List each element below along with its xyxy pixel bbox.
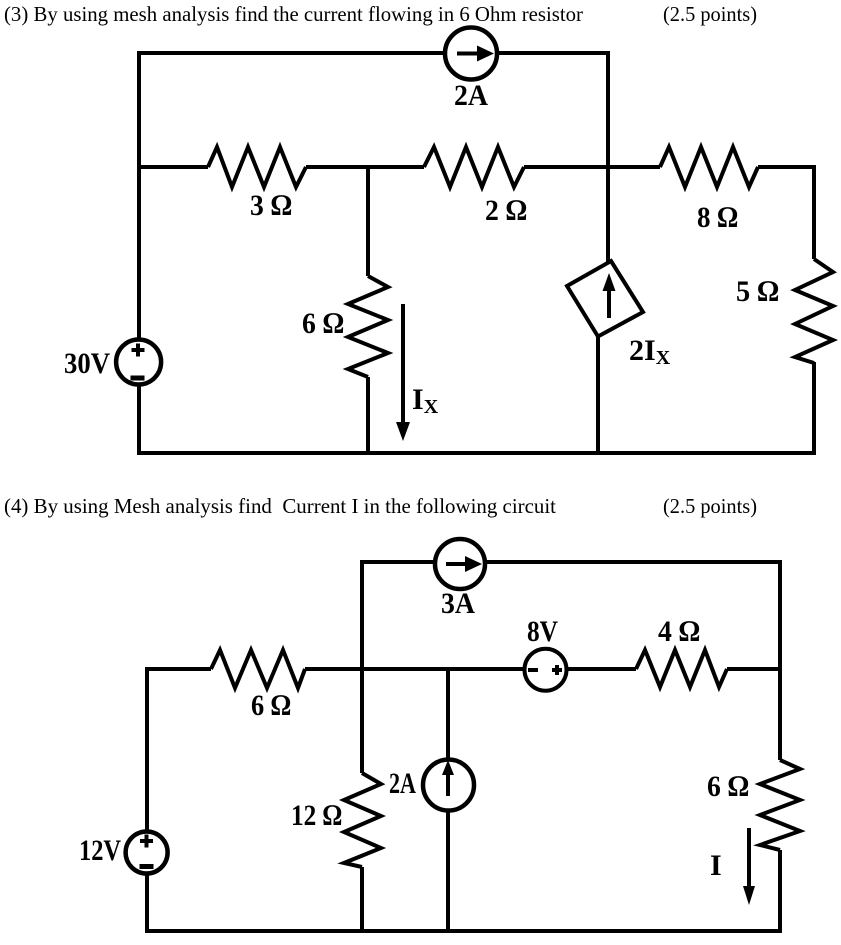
svg-text:2A: 2A bbox=[389, 767, 416, 800]
svg-text:2IX: 2IX bbox=[629, 334, 671, 369]
svg-text:3A: 3A bbox=[441, 587, 475, 620]
wire: row2 middle segment bbox=[305, 667, 636, 671]
svg-text:(2.5 points): (2.5 points) bbox=[663, 494, 757, 518]
wire: circuit4 middle branch vertical (top wire to 12-ohm) bbox=[360, 560, 364, 773]
wire: circuit4 right vertical below 6-ohm bbox=[778, 850, 782, 933]
svg-text:12 Ω: 12 Ω bbox=[291, 799, 342, 832]
svg-text:8 Ω: 8 Ω bbox=[697, 201, 738, 234]
wire: 6-ohm branch top lead bbox=[366, 165, 370, 276]
resistor 4 Ohm bbox=[636, 650, 727, 687]
svg-text:(4) By using Mesh analysis fin: (4) By using Mesh analysis find Current … bbox=[4, 494, 556, 518]
wire: circuit3 top wire bbox=[139, 51, 608, 55]
wire: circuit3 left vertical bbox=[137, 51, 141, 455]
wire: 2A branch vertical bbox=[446, 669, 450, 933]
arrow Ix (current direction) bbox=[396, 304, 410, 441]
current source 2A (circuit4) bbox=[423, 760, 474, 811]
svg-text:3 Ω: 3 Ω bbox=[250, 189, 292, 222]
arrow I (current direction) bbox=[743, 828, 755, 905]
svg-text:6 Ω: 6 Ω bbox=[707, 770, 749, 803]
resistor 5 Ohm bbox=[795, 259, 833, 363]
svg-text:2 Ω: 2 Ω bbox=[485, 194, 527, 227]
wire: circuit3 bottom wire bbox=[137, 451, 816, 455]
svg-text:6 Ω: 6 Ω bbox=[251, 689, 291, 722]
resistor 2 Ohm bbox=[424, 147, 524, 187]
svg-text:6 Ω: 6 Ω bbox=[302, 307, 344, 340]
svg-text:30V: 30V bbox=[64, 347, 110, 380]
svg-text:8V: 8V bbox=[527, 615, 558, 648]
svg-text:5 Ω: 5 Ω bbox=[736, 275, 779, 308]
svg-text:(2.5 points): (2.5 points) bbox=[663, 2, 757, 26]
wire: middle segment between 3-ohm and 2-ohm bbox=[306, 165, 424, 169]
voltage source 8V bbox=[525, 649, 567, 691]
svg-text:IX: IX bbox=[412, 383, 439, 418]
wire: circuit4 left vertical bbox=[145, 667, 149, 933]
wire: circuit3 middle wire segment left of 3-ohm bbox=[137, 165, 208, 169]
current source 2A (circuit3) bbox=[445, 28, 497, 80]
resistor 6 Ohm (circuit4 left) bbox=[211, 650, 305, 688]
wire: 6-ohm branch bottom lead bbox=[366, 377, 370, 455]
resistor 6 Ohm (circuit4 right) bbox=[760, 760, 800, 850]
resistor 12 Ohm bbox=[344, 773, 381, 867]
current source 3A bbox=[435, 539, 485, 589]
wire: circuit4 top wire bbox=[363, 560, 780, 564]
voltage source 12V bbox=[126, 832, 168, 874]
wire: circuit4 bottom wire bbox=[145, 929, 782, 933]
wire: 12-ohm lower lead bbox=[360, 867, 364, 933]
wire: middle segment between 2-ohm and 8-ohm bbox=[524, 165, 660, 169]
wire: circuit4 right vertical above 6-ohm bbox=[778, 560, 782, 760]
wire: dependent-source branch lower vertical bbox=[596, 335, 600, 455]
dependent current source 2Ix (diamond) bbox=[567, 261, 643, 337]
wire: right vertical above 5-ohm bbox=[812, 165, 816, 259]
wire: row2 left segment bbox=[145, 667, 211, 671]
wire: middle segment right of 8-ohm bbox=[758, 165, 816, 169]
wire: row2 right segment bbox=[727, 667, 782, 671]
resistor 6 Ohm (circuit3) bbox=[348, 276, 388, 377]
svg-text:4 Ω: 4 Ω bbox=[658, 615, 700, 648]
svg-text:I: I bbox=[710, 849, 722, 882]
svg-text:12V: 12V bbox=[79, 834, 121, 867]
resistor 3 Ohm bbox=[208, 147, 306, 187]
svg-text:2A: 2A bbox=[454, 79, 488, 112]
resistor 8 Ohm bbox=[660, 147, 758, 187]
wire: right vertical below 5-ohm bbox=[812, 362, 816, 455]
voltage source 30V bbox=[116, 340, 161, 385]
wire: dependent-source branch upper vertical bbox=[606, 51, 610, 262]
svg-text:(3) By using mesh analysis fin: (3) By using mesh analysis find the curr… bbox=[4, 2, 583, 26]
